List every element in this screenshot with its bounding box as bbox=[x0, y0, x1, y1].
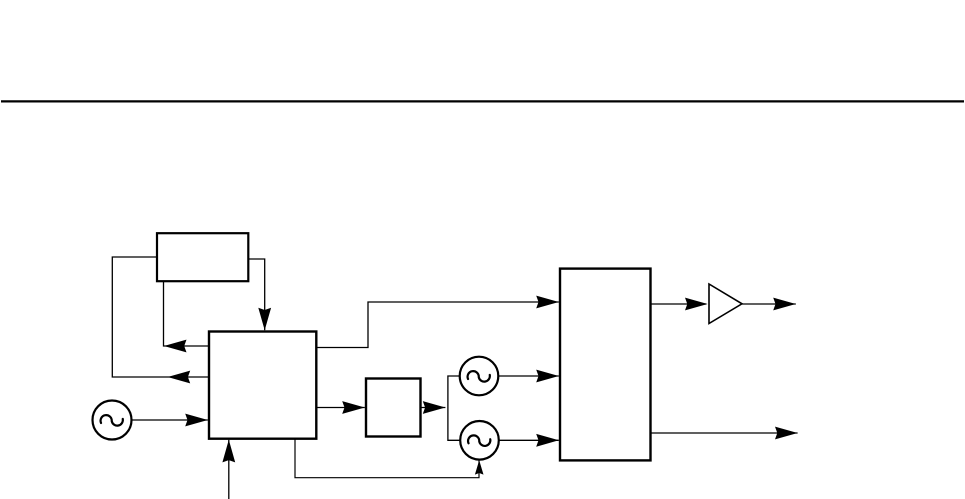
oscillator G3 (lower right AC source) bbox=[460, 421, 499, 460]
wire W1 (U2 left side loop down to U1 left input) bbox=[112, 257, 209, 377]
wire W2 (U2 bottom down then from U1 left) bbox=[164, 281, 210, 346]
wire W7b (branch to G2 and G3) bbox=[448, 376, 460, 440]
block U4 (tall right block) bbox=[560, 269, 651, 461]
header rule bbox=[1, 100, 964, 102]
wire W6 (U1 right to U3) bbox=[317, 407, 365, 409]
arrowhead on W5 pointing up into U1 bbox=[222, 440, 235, 463]
wire W3 (U2 right side down into U1 top) bbox=[249, 259, 265, 330]
wire W12 (U4 top output to A1) bbox=[651, 303, 706, 305]
arrowhead on W13 pointing right (output) bbox=[775, 427, 798, 440]
arrowhead on W1 pointing left into node bbox=[168, 371, 191, 384]
wire W9 (G3 to U4 input) bbox=[499, 439, 559, 441]
arrowhead on W12 pointing right into A1 bbox=[685, 298, 708, 311]
arrowhead on W6 pointing right into U3 bbox=[342, 401, 365, 414]
block U3 (small middle block) bbox=[366, 379, 421, 437]
arrowhead on W3 pointing down into U1 bbox=[258, 308, 271, 331]
arrowhead on W10 pointing right into U4 bbox=[536, 296, 559, 309]
oscillator G2 (upper right AC source) bbox=[460, 357, 499, 396]
arrowhead on W8 pointing right into U4 bbox=[536, 370, 559, 383]
wire W8 (G2 to U4 input) bbox=[498, 375, 559, 377]
arrowhead on W9 pointing right into U4 bbox=[536, 434, 559, 447]
wire W10 (U1 right up to U4 top input) bbox=[317, 302, 559, 348]
oscillator G1 (left AC source) bbox=[93, 401, 132, 440]
arrowhead on W7 pointing right into branch bbox=[423, 401, 446, 414]
arrowhead on W4 pointing right into U1 bbox=[185, 414, 208, 427]
block U1 (main square block) bbox=[209, 332, 316, 439]
arrowhead on W2 pointing left at corner bbox=[164, 340, 187, 353]
wire W4 (G1 to U1 left input) bbox=[132, 419, 208, 421]
arrowhead on W12b pointing right (output) bbox=[773, 298, 796, 311]
wire W7 (U3 to branch node) bbox=[421, 407, 445, 409]
wire W13 (U4 bottom output) bbox=[651, 432, 798, 434]
amplifier A1 (output buffer triangle) bbox=[709, 284, 742, 324]
wire W12b (A1 output) bbox=[742, 303, 796, 305]
wire W5 (bottom input into U1 from below) bbox=[228, 440, 230, 499]
wire W11 (U1 bottom loop to G3 bottom) bbox=[295, 439, 479, 478]
arrowhead on W11 pointing up into G3 bbox=[475, 460, 484, 474]
block U2 (top feedback block) bbox=[157, 233, 248, 281]
